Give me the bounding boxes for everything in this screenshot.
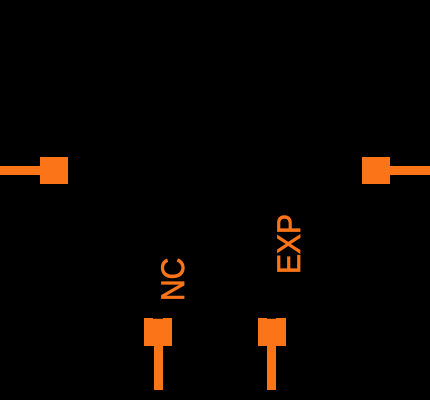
pin NC wire (bottom-left, vertical) xyxy=(154,346,163,390)
pin 1 wire (left) xyxy=(0,166,41,176)
pin NC pad notch xyxy=(153,318,162,320)
label EXP (rotated) xyxy=(274,213,306,273)
pin 2 wire (right) xyxy=(390,166,430,176)
pin EXP pad (bottom-right) xyxy=(258,318,286,346)
pin 1 pad (left) xyxy=(40,157,68,185)
pin EXP pad notch xyxy=(267,318,276,320)
label NC (rotated) xyxy=(158,257,190,300)
pin NC pad (bottom-left) xyxy=(144,318,172,347)
pin 2 pad (right) xyxy=(362,157,390,185)
pin EXP wire (bottom-right, vertical) xyxy=(267,345,276,389)
